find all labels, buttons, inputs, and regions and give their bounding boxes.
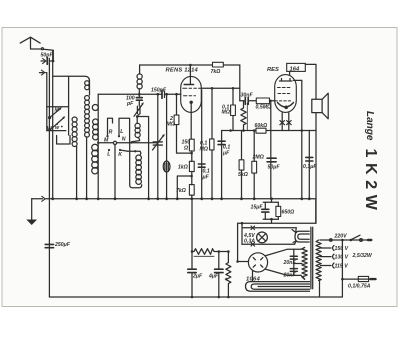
svg-text:30nF: 30nF: [241, 93, 254, 99]
svg-text:4μF: 4μF: [208, 274, 219, 280]
svg-text:0,1μF: 0,1μF: [303, 164, 317, 170]
svg-text:164: 164: [290, 67, 300, 73]
svg-text:2MΩ: 2MΩ: [252, 155, 264, 161]
svg-text:5kΩ: 5kΩ: [238, 172, 248, 178]
svg-text:pF: pF: [126, 101, 134, 107]
svg-text:M: M: [55, 108, 60, 114]
svg-text:MΩ: MΩ: [200, 147, 208, 153]
svg-text:250μF: 250μF: [54, 242, 71, 248]
svg-text:1 K 2 W: 1 K 2 W: [362, 149, 379, 211]
svg-text:1kΩ: 1kΩ: [178, 165, 188, 171]
svg-text:RENS 1214: RENS 1214: [166, 67, 199, 73]
svg-text:μF: μF: [202, 175, 210, 181]
svg-text:15μF: 15μF: [251, 205, 264, 211]
svg-text:L: L: [120, 129, 123, 135]
svg-text:0,1/0,75A: 0,1/0,75A: [348, 284, 371, 290]
svg-text:60kΩ: 60kΩ: [255, 123, 268, 129]
svg-text:0,5MΩ: 0,5MΩ: [256, 104, 272, 110]
svg-text:MΩ: MΩ: [167, 122, 175, 128]
svg-text:50μF: 50μF: [268, 165, 281, 171]
svg-text:2μF: 2μF: [192, 274, 203, 280]
svg-text:20nF: 20nF: [283, 273, 297, 279]
svg-text:150pF: 150pF: [151, 88, 167, 94]
svg-text:115 V: 115 V: [335, 264, 349, 270]
svg-text:MΩ: MΩ: [222, 110, 230, 116]
svg-text:220V: 220V: [334, 234, 348, 240]
svg-text:RES: RES: [267, 67, 279, 73]
svg-text:7kΩ: 7kΩ: [211, 69, 221, 75]
svg-text:μF: μF: [222, 151, 230, 157]
svg-text:150 V: 150 V: [335, 246, 349, 252]
svg-text:Lange: Lange: [364, 111, 375, 141]
svg-text:L: L: [107, 152, 110, 158]
svg-text:0,3A: 0,3A: [244, 238, 255, 244]
svg-text:R: R: [109, 130, 113, 136]
svg-text:2,5/32W: 2,5/32W: [352, 253, 373, 259]
svg-text:N: N: [122, 137, 126, 143]
svg-text:20nF: 20nF: [283, 260, 297, 266]
svg-text:130 V: 130 V: [335, 255, 349, 261]
svg-text:Ω: Ω: [183, 146, 188, 152]
svg-text:M: M: [104, 137, 109, 143]
svg-text:650Ω: 650Ω: [282, 210, 295, 216]
svg-text:50pF: 50pF: [41, 53, 54, 59]
